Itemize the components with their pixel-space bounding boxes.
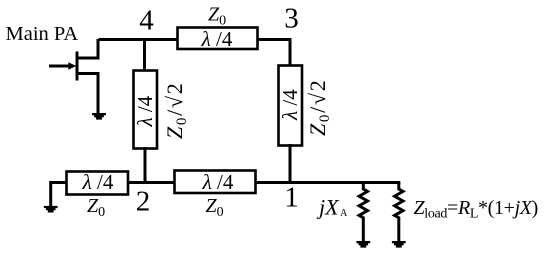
svg-text:λ /4: λ /4 (133, 95, 157, 127)
svg-text:jXA: jXA (316, 195, 348, 220)
svg-text:2: 2 (136, 186, 151, 218)
wire: TL2 bottom stub (144, 147, 147, 184)
transmission line TL4 (bottom left, Z0, lambda/4) (67, 170, 129, 195)
transmission line TL5 (bottom middle, Z0, lambda/4) (175, 170, 256, 194)
svg-text:λ /4: λ /4 (82, 170, 114, 194)
ground (jXA resistor) (356, 241, 370, 248)
wire: top bus (drain to node 3) (99, 38, 291, 41)
transmission line TL1 (top, Z0, lambda/4) (178, 27, 258, 51)
transmission line TL3 (right vertical, lambda/4) (278, 66, 302, 146)
ground (transistor source) (92, 113, 106, 120)
svg-text:Z0/√2: Z0/√2 (305, 79, 333, 136)
svg-text:3: 3 (284, 3, 299, 35)
wire: TL3 bottom stub (289, 144, 292, 184)
wire: node 3 corner drop (289, 38, 292, 66)
transmission line TL2 (left vertical, lambda/4) (133, 71, 157, 149)
svg-text:λ /4: λ /4 (202, 170, 234, 194)
resistor (jXA shunt) (359, 183, 367, 242)
svg-text:4: 4 (139, 5, 154, 37)
wire: node 4 stub (143, 38, 146, 72)
svg-text:Z0/√2: Z0/√2 (162, 82, 190, 139)
transistor Q1 (Main PA FET) (49, 39, 98, 113)
svg-text:λ /4: λ /4 (201, 27, 233, 51)
svg-text:Z0: Z0 (208, 4, 226, 29)
svg-text:Z0: Z0 (87, 195, 105, 220)
ground (Zload resistor) (392, 241, 406, 248)
svg-text:1: 1 (284, 182, 299, 214)
ground (bottom left) (44, 206, 58, 213)
svg-text:Z0: Z0 (205, 195, 223, 220)
svg-text:Main PA: Main PA (6, 23, 79, 45)
wire: left ground drop (49, 181, 52, 207)
svg-text:λ /4: λ /4 (278, 89, 302, 121)
svg-text:Zload=RL*(1+jX): Zload=RL*(1+jX) (414, 197, 538, 222)
resistor (Zload shunt) (395, 183, 403, 242)
wire: bottom bus (50, 181, 400, 184)
